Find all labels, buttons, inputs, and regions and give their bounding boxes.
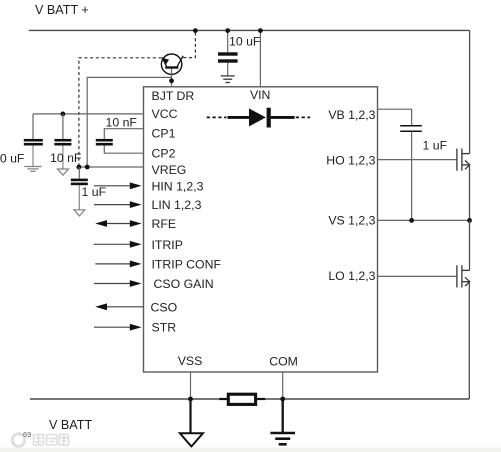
- svg-text:VSS: VSS: [178, 354, 203, 368]
- wire Q1 base lead down to IC top: [171, 69, 173, 87]
- wire VCC pin to left caps: [33, 113, 144, 115]
- wire right vertical from top rail to Q2 drain: [469, 30, 471, 153]
- svg-text:1 uF: 1 uF: [423, 139, 448, 153]
- transistor Q3 low-side MOSFET: [457, 265, 470, 287]
- op-amp U1 gate-driver IC body: [144, 87, 378, 372]
- svg-text:CSO: CSO: [151, 300, 178, 314]
- node junction dot on Q1 base lead: [169, 78, 174, 83]
- wire dashed Q1 emitter to VREG net: [79, 58, 162, 167]
- svg-text:CSO GAIN: CSO GAIN: [154, 277, 214, 291]
- svg-text:10 uF: 10 uF: [229, 35, 261, 49]
- node dot Q1 wire on VREG: [85, 165, 90, 170]
- node dot C1 on top rail: [225, 28, 230, 33]
- node dot C6 on VS: [409, 218, 414, 223]
- transistor Q2 high-side MOSFET: [457, 149, 470, 171]
- capacitor C2 10uF bulk left (label clipped): [24, 114, 43, 166]
- wire ITRIP CONF input with arrow: [95, 263, 130, 265]
- resistor R1 on bottom rail: [219, 394, 265, 404]
- svg-text:V BATT: V BATT: [49, 418, 92, 432]
- svg-text:STR: STR: [152, 321, 177, 335]
- ground earth under C2: [24, 167, 41, 172]
- wire STR input with arrow: [94, 326, 131, 328]
- capacitor C5 1uF on VREG: [71, 167, 88, 210]
- wire CSO GAIN input with arrow: [94, 283, 131, 285]
- wire HIN input with arrow: [94, 185, 131, 187]
- watermark bottom left: [12, 430, 68, 446]
- wire from Q1 base lead left then down to VREG: [87, 77, 171, 167]
- svg-text:HO 1,2,3: HO 1,2,3: [326, 153, 375, 167]
- transistor Q1 BJT: [161, 54, 183, 74]
- wire right vertical from Q3 source to bottom rail: [468, 282, 470, 399]
- svg-text:BJT DR: BJT DR: [152, 89, 195, 103]
- svg-text:HIN 1,2,3: HIN 1,2,3: [152, 179, 204, 193]
- wire dashed Q1 collector to top rail: [183, 31, 195, 58]
- svg-text:1 uF: 1 uF: [82, 185, 107, 199]
- capacitor C6 1uF bootstrap: [400, 126, 422, 131]
- ground triangle under C5: [74, 210, 85, 216]
- wire VSS pin down to bottom rail: [190, 372, 192, 399]
- wire LO pin to Q3 gate: [378, 275, 457, 277]
- svg-text:VREG: VREG: [152, 163, 187, 177]
- diode D1 VCC to VB bootstrap: [207, 108, 311, 128]
- wire VS down to Q3 drain: [469, 220, 471, 270]
- svg-text:V BATT +: V BATT +: [35, 3, 89, 17]
- ground earth COM: [270, 433, 295, 444]
- svg-text:10 nF: 10 nF: [106, 115, 138, 129]
- wire HO pin to Q2 gate: [378, 159, 457, 161]
- wire COM pin down to bottom rail: [282, 372, 284, 399]
- node dot C3 top on VCC wire: [61, 112, 66, 117]
- wire C6 bottom down to VS: [411, 132, 413, 221]
- bottom band: [0, 448, 501, 452]
- wire COM below rail thick: [282, 399, 284, 433]
- ground earth under C1: [221, 76, 235, 83]
- svg-text:LIN 1,2,3: LIN 1,2,3: [152, 198, 202, 212]
- node dot COM on bottom rail: [280, 397, 285, 402]
- svg-text:VS 1,2,3: VS 1,2,3: [328, 214, 375, 228]
- capacitor C1 10uF at top rail: [218, 31, 238, 76]
- node dot collector dash on rail: [193, 28, 198, 33]
- wire bottom rail V BATT: [30, 398, 469, 400]
- capacitor C3 10nF VCC decoupling: [54, 114, 71, 169]
- wire VB pin to bootstrap cap: [378, 109, 412, 125]
- node dot Q2 source on VS: [467, 218, 472, 223]
- svg-text:10 uF: 10 uF: [0, 152, 25, 166]
- svg-text:VCC: VCC: [152, 107, 178, 121]
- svg-text:COM: COM: [269, 354, 298, 368]
- svg-text:69: 69: [23, 430, 31, 439]
- wire VS pin to right: [378, 219, 470, 221]
- svg-text:ITRIP: ITRIP: [152, 238, 183, 252]
- node dot VIN on top rail: [258, 28, 263, 33]
- wire VREG pin: [79, 166, 144, 168]
- svg-text:VIN: VIN: [250, 88, 271, 102]
- wire CSO output with left arrow: [107, 306, 144, 308]
- svg-text:RFE: RFE: [152, 217, 177, 231]
- ground triangle VSS: [180, 433, 203, 446]
- svg-text:CP2: CP2: [152, 147, 176, 161]
- wire ITRIP input with arrow: [94, 243, 131, 245]
- wire RFE bidirectional arrow: [106, 223, 131, 225]
- capacitor C4 10nF across CP1-CP2: [96, 129, 144, 154]
- wire LIN input with arrow: [94, 204, 131, 206]
- svg-text:LO 1,2,3: LO 1,2,3: [328, 269, 375, 283]
- wire VIN from top rail to IC: [259, 31, 261, 87]
- node dot dashed emitter on VREG: [77, 165, 82, 170]
- svg-text:CP1: CP1: [152, 127, 176, 141]
- wire top rail V BATT+: [29, 29, 470, 31]
- wire Q2 source down to VS: [469, 165, 471, 221]
- wire VSS below rail thick: [189, 399, 191, 433]
- svg-text:10 nF: 10 nF: [50, 151, 82, 165]
- ground triangle under C3: [58, 169, 69, 175]
- svg-text:VB 1,2,3: VB 1,2,3: [328, 108, 375, 122]
- svg-text:ITRIP CONF: ITRIP CONF: [152, 257, 222, 271]
- node dot VSS on bottom rail: [188, 397, 193, 402]
